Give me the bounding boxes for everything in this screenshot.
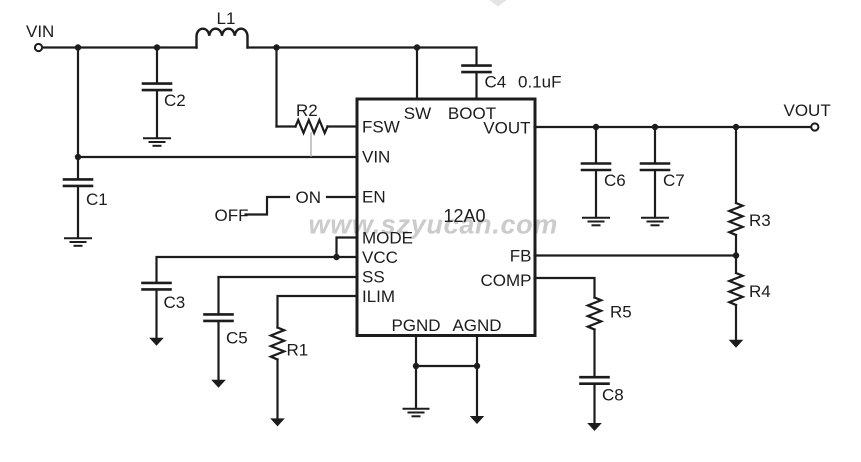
svg-text:0.1uF: 0.1uF (518, 73, 561, 92)
svg-text:R5: R5 (610, 303, 632, 322)
node VIN terminal (35, 44, 42, 51)
wire OFF step (246, 197, 290, 215)
node VOUT terminal (811, 123, 818, 130)
capacitor C1 (64, 179, 92, 186)
wire top rail right (248, 46, 477, 48)
resistor R3 (729, 203, 742, 235)
wire ILIM to R1 (278, 296, 357, 328)
node junction FB divider (733, 252, 739, 258)
svg-text:MODE: MODE (362, 229, 413, 248)
wire C2 top lead (156, 48, 158, 83)
wire R3 top lead (735, 127, 737, 203)
node junction C2 column (154, 44, 160, 50)
svg-text:VIN: VIN (26, 22, 54, 41)
svg-text:VCC: VCC (362, 248, 398, 267)
capacitor C2 (143, 84, 171, 91)
wire VIN rail to IC (78, 156, 356, 158)
svg-text:R3: R3 (749, 211, 771, 230)
wire R4 top lead (735, 256, 737, 274)
svg-text:L1: L1 (217, 9, 236, 28)
capacitor C6 (582, 164, 610, 171)
wire faint stub below R2 (310, 133, 312, 156)
wire C2 bottom lead (156, 91, 158, 137)
wire MODE loop (337, 238, 357, 258)
wire PGND lead (415, 336, 417, 367)
capacitor C3 (143, 283, 171, 290)
wire C5 bottom lead (217, 322, 219, 380)
wire SW pin to rail (416, 48, 418, 100)
node junction AGND (474, 363, 480, 369)
svg-text:OFF: OFF (215, 206, 249, 225)
wire C6 top lead (595, 127, 597, 162)
ground (C1) (65, 238, 91, 246)
wire COMP to R5 (535, 278, 595, 298)
wire C1 top lead (77, 157, 79, 178)
svg-text:www.szyucan.com: www.szyucan.com (309, 210, 559, 240)
ground (C2) (144, 138, 170, 146)
svg-text:12A0: 12A0 (443, 206, 485, 226)
node junction MODE/VCC (333, 254, 339, 260)
wire C4 bottom lead to BOOT (475, 73, 477, 99)
svg-text:AGND: AGND (452, 316, 501, 335)
wire VIN column down (77, 48, 79, 158)
node junction R2 column (273, 44, 279, 50)
svg-text:FB: FB (510, 247, 532, 266)
wire VCC to C3 (157, 257, 357, 282)
ground (C7) (642, 218, 668, 226)
wire R5 to C8 (593, 330, 595, 376)
ground arrow (C3) (149, 338, 164, 346)
resistor R4 (729, 273, 742, 305)
svg-text:ON: ON (296, 188, 322, 207)
wire C8 bottom lead (593, 385, 595, 423)
svg-text:PGND: PGND (391, 316, 440, 335)
svg-text:C6: C6 (604, 171, 626, 190)
wire C6 bottom lead (595, 171, 597, 217)
node junction PGND (413, 363, 419, 369)
node junction SW column (414, 44, 420, 50)
wire ground rail (416, 365, 477, 367)
wire R2 right lead to FSW (328, 125, 357, 127)
wire AGND to ground arrow (476, 366, 478, 416)
svg-text:ILIM: ILIM (362, 287, 395, 306)
ground arrow (C5) (211, 380, 226, 388)
wire R2 column down (275, 48, 277, 127)
wire R3 bottom lead (735, 235, 737, 256)
wire VOUT rail (535, 126, 812, 128)
watermark diamond (488, 0, 508, 7)
svg-text:VOUT: VOUT (784, 101, 831, 120)
resistor R1 (271, 328, 284, 360)
ground arrow (AGND) (470, 416, 485, 424)
svg-text:SS: SS (362, 268, 385, 287)
node junction C7 (652, 124, 658, 130)
svg-text:R2: R2 (296, 101, 318, 120)
wire C4 top lead (475, 48, 477, 65)
wire C7 top lead (654, 127, 656, 162)
svg-text:VOUT: VOUT (483, 119, 530, 138)
wire SS to C5 (219, 277, 357, 313)
capacitor C8 (581, 377, 609, 384)
capacitor C7 (641, 164, 669, 171)
resistor R2 (296, 120, 328, 133)
wire top rail left (43, 46, 197, 48)
svg-text:C7: C7 (663, 171, 685, 190)
svg-text:C1: C1 (86, 190, 108, 209)
node junction C1/VIN rail (75, 154, 81, 160)
resistor R5 (588, 298, 601, 330)
svg-text:R4: R4 (749, 282, 771, 301)
svg-text:FSW: FSW (362, 118, 400, 137)
wire R2 left lead (277, 125, 296, 127)
wire C1 bottom lead (77, 187, 79, 237)
op-amp U1 (converter IC 12A0) (357, 99, 535, 336)
svg-text:C5: C5 (226, 329, 248, 348)
ground (C6) (583, 218, 609, 226)
node junction VIN/C1 column (75, 44, 81, 50)
svg-text:EN: EN (362, 188, 386, 207)
svg-text:C4: C4 (485, 73, 507, 92)
wire R1 bottom lead (276, 360, 278, 419)
svg-text:C3: C3 (164, 293, 186, 312)
wire C3 bottom lead (155, 291, 157, 338)
inductor L1 (197, 29, 248, 48)
ground arrow (C8) (587, 423, 602, 431)
wire FB rail (535, 254, 737, 256)
ground (PGND) (404, 409, 429, 417)
wire C7 bottom lead (654, 171, 656, 217)
node junction R3 (733, 124, 739, 130)
ground arrow (R4) (729, 340, 744, 348)
svg-text:C8: C8 (602, 386, 624, 405)
wire ON to EN (327, 196, 356, 198)
capacitor C5 (205, 314, 233, 321)
wire AGND lead (476, 336, 478, 367)
svg-text:VIN: VIN (362, 148, 390, 167)
node junction C6 (593, 124, 599, 130)
capacitor C4 (463, 66, 491, 73)
svg-text:R1: R1 (287, 341, 309, 360)
svg-text:C2: C2 (164, 91, 186, 110)
svg-text:COMP: COMP (481, 271, 532, 290)
svg-text:SW: SW (404, 104, 431, 123)
wire R4 bottom lead (735, 305, 737, 340)
ground arrow (R1) (270, 418, 285, 426)
wire PGND to ground (415, 366, 417, 408)
